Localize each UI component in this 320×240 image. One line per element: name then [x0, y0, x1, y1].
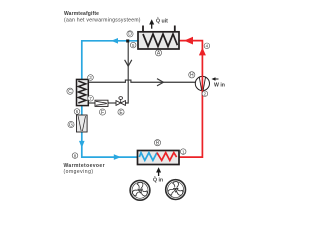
svg-text:C: C — [68, 89, 72, 95]
wire: black liquid line node5 down to valve E — [125, 43, 132, 104]
condenser A — [138, 26, 179, 50]
wire: red pipe compressor to condenser A — [180, 37, 206, 76]
label A — [155, 50, 161, 57]
svg-text:Warmteafgifte: Warmteafgifte — [64, 11, 99, 17]
svg-text:(aan het verwarmingssysteem): (aan het verwarmingssysteem) — [64, 17, 141, 23]
node 4 — [204, 43, 210, 49]
fan right — [166, 180, 186, 200]
heat exchanger C — [77, 79, 89, 105]
label F — [99, 109, 105, 116]
node 3 — [88, 75, 94, 81]
label C — [67, 88, 73, 95]
node 1 — [180, 149, 186, 155]
label G — [68, 121, 74, 128]
wire: red pipe B-outlet up to compressor — [179, 91, 202, 157]
W in arrow and text — [212, 77, 225, 88]
svg-text:F: F — [101, 110, 104, 116]
node 6 — [74, 109, 80, 115]
wire: black suction line C to compressor with hop over vertical — [88, 79, 195, 86]
compressor H — [195, 76, 209, 91]
label D — [127, 31, 133, 38]
label B — [154, 140, 160, 147]
wire: blue pipe A-outlet to node 5 — [82, 38, 138, 80]
svg-text:W in: W in — [214, 82, 225, 88]
node 5 — [130, 42, 136, 48]
node 5 junction dot — [126, 39, 129, 42]
expansion valve E — [116, 97, 125, 106]
Q in arrow — [153, 167, 163, 183]
svg-text:D: D — [128, 32, 132, 38]
evaporator B — [138, 151, 180, 165]
svg-text:H: H — [190, 73, 194, 79]
label H — [189, 72, 195, 79]
svg-text:Warmtetoevoer: Warmtetoevoer — [64, 163, 105, 169]
node 8 — [72, 153, 78, 159]
label E — [118, 109, 124, 116]
venturi G — [77, 115, 88, 132]
fan left — [130, 180, 150, 200]
Q uit arrow — [149, 17, 168, 29]
filter F — [95, 100, 108, 106]
wire: blue pipe through C down to G — [81, 80, 83, 117]
node 7 — [88, 96, 94, 102]
wire: black line valve E to filter F to C — [108, 102, 116, 104]
svg-text:Q in: Q in — [153, 178, 163, 184]
node 2 — [202, 91, 208, 97]
wire: blue pipe G to evaporator B — [79, 131, 138, 160]
svg-text:Q uit: Q uit — [156, 18, 168, 24]
svg-text:G: G — [69, 122, 73, 128]
svg-text:(omgeving): (omgeving) — [64, 169, 94, 175]
